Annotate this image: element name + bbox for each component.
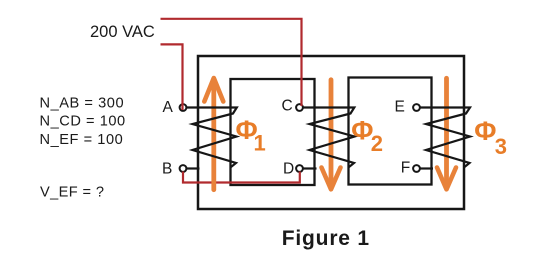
core window 2 (right window) [349, 78, 432, 185]
svg-text:3: 3 [495, 134, 507, 159]
flux arrow PHI2 (downward, center leg) [322, 80, 341, 190]
svg-text:E: E [395, 98, 405, 115]
svg-text:Figure 1: Figure 1 [282, 227, 370, 250]
wire: source return lead to terminal A [161, 44, 183, 110]
core window 1 (left window) [231, 79, 315, 185]
svg-text:N_EF = 100: N_EF = 100 [40, 132, 124, 148]
terminal E [413, 104, 420, 111]
svg-text:F: F [401, 160, 410, 177]
terminal D [296, 165, 303, 172]
svg-text:1: 1 [254, 130, 266, 155]
wire stub terminal D to core [304, 167, 317, 169]
svg-text:200 VAC: 200 VAC [90, 23, 155, 41]
svg-text:D: D [283, 161, 294, 178]
svg-text:C: C [282, 98, 293, 115]
svg-text:V_EF = ?: V_EF = ? [40, 184, 104, 200]
flux arrow PHI1 (upward, left leg) [204, 78, 223, 190]
winding E-F on right leg [421, 108, 471, 168]
flux arrow PHI3 (downward, right leg) [437, 78, 456, 189]
svg-text:Φ: Φ [474, 116, 496, 146]
terminal A [180, 104, 187, 111]
wire: terminal B to terminal D [183, 172, 300, 183]
wire stub terminal F to core [421, 167, 434, 169]
transformer core outer boundary [198, 56, 464, 209]
svg-text:B: B [162, 160, 172, 177]
svg-text:2: 2 [371, 131, 383, 156]
terminal F [413, 165, 420, 172]
terminal C [296, 104, 303, 111]
svg-text:N_AB = 300: N_AB = 300 [40, 95, 125, 111]
wire stub terminal B to core [187, 167, 200, 169]
terminal B [180, 165, 187, 172]
svg-text:N_CD = 100: N_CD = 100 [40, 114, 126, 130]
winding A-B on left leg [187, 108, 237, 168]
svg-text:A: A [163, 99, 174, 116]
winding C-D on center leg [304, 108, 355, 168]
wire: source hot lead to terminal C [161, 19, 302, 106]
